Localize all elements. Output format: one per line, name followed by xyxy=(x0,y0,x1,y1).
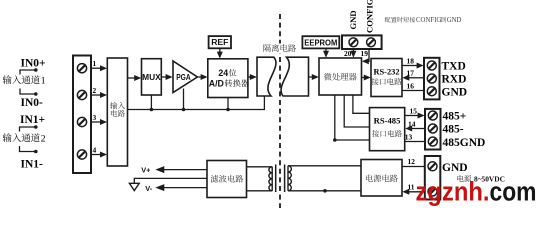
block power circuit xyxy=(361,160,402,197)
svg-text:11: 11 xyxy=(408,182,415,191)
terminal block J4 (pins 15,14,13) xyxy=(425,109,441,150)
terminal screw pin 16 xyxy=(427,87,436,96)
svg-text:13: 13 xyxy=(405,132,413,141)
wire ADC stub to bus xyxy=(227,98,229,110)
wire pin 3 to input circuit xyxy=(91,113,107,125)
svg-text:RS-485: RS-485 xyxy=(374,115,401,125)
svg-text:485GND: 485GND xyxy=(443,137,486,149)
block REF U2 xyxy=(209,36,231,48)
op-amp PGA xyxy=(173,61,197,93)
node IN1+ label xyxy=(20,114,45,126)
ground symbol (analog) xyxy=(129,183,139,190)
svg-text:com: com xyxy=(490,177,537,207)
svg-text:IN0+: IN0+ xyxy=(21,58,46,70)
block EEPROM U4 xyxy=(302,36,339,48)
wire pin13 485GND xyxy=(405,132,425,141)
svg-text:20: 20 xyxy=(344,49,352,58)
block filter circuit xyxy=(207,161,247,198)
svg-text:18: 18 xyxy=(407,56,415,65)
svg-text:4: 4 xyxy=(93,145,97,154)
svg-text:REF: REF xyxy=(211,37,228,47)
terminal screw pin 1 xyxy=(77,64,86,73)
wire ADC to isolator xyxy=(248,74,257,80)
label CONFIG vertical xyxy=(365,0,375,33)
wire isolator to microprocessor xyxy=(309,74,319,80)
pin number 20 xyxy=(344,49,352,58)
svg-text:EEPROM: EEPROM xyxy=(304,37,337,47)
svg-text:IN0-: IN0- xyxy=(21,97,44,109)
terminal screw pin 14 xyxy=(428,124,437,133)
wire pin14 485- xyxy=(405,119,424,131)
transformer secondary coil T1 xyxy=(288,166,291,191)
wire analog ground branch xyxy=(134,178,207,183)
junction dot power return xyxy=(323,189,327,193)
svg-text:RS-232: RS-232 xyxy=(373,67,399,76)
svg-text:1: 1 xyxy=(41,76,46,87)
terminal screw pin 19 xyxy=(367,38,376,47)
wire filter to transformer bottom xyxy=(247,190,273,192)
label 485GND xyxy=(443,137,486,149)
terminal screw pin 11 xyxy=(428,187,437,196)
transformer core line left xyxy=(275,165,277,193)
node input-channel-1 label xyxy=(3,75,46,86)
wire bracket channel1 top xyxy=(20,68,38,74)
wire bracket channel2 bottom xyxy=(20,146,38,153)
svg-text:GND: GND xyxy=(348,10,358,29)
transformer core line right xyxy=(284,165,286,193)
wire V- output xyxy=(145,184,207,193)
junction dot PGA-bus xyxy=(182,108,186,112)
terminal screw pin 18 xyxy=(427,61,436,70)
label GND (RS-232) xyxy=(442,86,468,98)
svg-text:CONFIG: CONFIG xyxy=(365,0,375,33)
svg-text:16: 16 xyxy=(407,81,415,90)
isolator left coupler xyxy=(257,57,276,96)
node IN1- label xyxy=(21,159,44,171)
svg-text:zgznh.: zgznh. xyxy=(416,177,490,207)
junction dot RS-485 line C xyxy=(333,138,337,142)
watermark zgznh xyxy=(416,177,490,207)
svg-text:2: 2 xyxy=(93,86,97,95)
block ADC 24-bit A/D converter U3 xyxy=(208,59,249,98)
note config instruction xyxy=(385,17,462,24)
label GND (power) xyxy=(442,162,468,174)
svg-text:A/D: A/D xyxy=(209,78,224,88)
svg-text:12: 12 xyxy=(408,157,416,166)
watermark com xyxy=(490,177,537,207)
terminal screw pin 20 xyxy=(349,38,358,47)
wire pin15 485+ xyxy=(405,106,425,118)
terminal screw pin 17 xyxy=(427,74,436,83)
svg-text:19: 19 xyxy=(361,49,369,58)
wire PGA to ADC xyxy=(197,74,207,80)
wire MUX stub to bus xyxy=(150,95,152,110)
block RS-485 interface xyxy=(370,108,405,151)
wire MUX to PGA xyxy=(161,74,172,80)
svg-text:14: 14 xyxy=(408,119,416,128)
block input-circuit U1 xyxy=(107,58,127,166)
multiplexer MUX xyxy=(142,59,162,95)
wire input-circuit to MUX xyxy=(128,75,142,81)
svg-text:GND: GND xyxy=(442,86,468,98)
transformer primary coil T1 xyxy=(269,167,272,191)
wire pin11 power input xyxy=(402,182,425,194)
svg-text:V+: V+ xyxy=(141,165,151,174)
wire pin20 GND to micro xyxy=(350,49,356,58)
node IN0+ label xyxy=(21,58,46,70)
wire PGA stub to bus xyxy=(183,89,185,110)
wire analog common bus xyxy=(128,96,265,110)
terminal block J3 (pins 18,17,16) xyxy=(424,58,440,100)
svg-text:RXD: RXD xyxy=(442,74,467,86)
svg-text:24: 24 xyxy=(218,68,228,78)
svg-text:MUX: MUX xyxy=(142,72,161,82)
svg-text:CONFIG: CONFIG xyxy=(416,17,441,24)
svg-text:TXD: TXD xyxy=(442,61,466,73)
terminal screw pin 2 xyxy=(77,90,86,99)
terminal screw pin 3 xyxy=(77,117,86,126)
wire pin 2 to input circuit xyxy=(91,86,107,98)
terminal screw pin 4 xyxy=(77,150,86,159)
svg-text:3: 3 xyxy=(93,113,97,122)
wire pin18 TXD xyxy=(402,56,424,68)
svg-text:IN1+: IN1+ xyxy=(20,114,45,126)
wire filter to transformer top xyxy=(247,166,273,168)
svg-text:485-: 485- xyxy=(443,124,464,136)
svg-text:IN1-: IN1- xyxy=(21,159,44,171)
svg-text:GND: GND xyxy=(447,17,462,24)
label 485- xyxy=(443,124,464,136)
junction dot MUX-bus xyxy=(150,108,154,112)
label RXD xyxy=(442,74,467,86)
wire transformer to power circuit bottom xyxy=(288,190,361,192)
terminal block J2 (pins 20,19) xyxy=(342,35,382,49)
svg-text:1: 1 xyxy=(93,59,97,68)
terminal screw pin 12 xyxy=(428,162,437,171)
wire pin19 CONFIG to micro xyxy=(362,49,369,64)
block RS-232 interface xyxy=(371,59,402,97)
label 485+ xyxy=(443,111,467,123)
svg-text:PGA: PGA xyxy=(176,73,191,82)
isolator right coupler xyxy=(281,57,308,96)
junction dot ADC-bus xyxy=(226,108,230,112)
block microprocessor U5 xyxy=(319,58,362,95)
svg-text:17: 17 xyxy=(407,69,415,78)
node input-channel-2 label xyxy=(3,133,46,144)
wire pin16 GND xyxy=(402,81,424,90)
wire bracket channel2 top xyxy=(20,125,38,131)
node IN0- label xyxy=(21,97,44,109)
wire EEPROM to microprocessor xyxy=(323,48,329,57)
terminal block J1 (pins 1-4) xyxy=(73,56,91,174)
label GND vertical xyxy=(348,10,358,29)
svg-text:2: 2 xyxy=(41,134,46,145)
label power supply range xyxy=(457,175,505,184)
pin number 19 xyxy=(361,49,369,58)
label TXD xyxy=(442,61,466,73)
wire micro to RS-232 xyxy=(362,75,371,81)
wire pin12 GND xyxy=(402,157,425,166)
svg-text:15: 15 xyxy=(410,106,418,115)
svg-text:V-: V- xyxy=(145,184,153,193)
wire micro to RS-485 line C xyxy=(335,95,370,140)
isolation barrier dashed line xyxy=(279,14,281,208)
terminal screw pin 15 xyxy=(428,111,437,120)
wire transformer to power circuit top xyxy=(288,165,361,167)
wire pin 4 to input circuit xyxy=(91,145,107,157)
wire pin17 RXD xyxy=(402,69,424,81)
terminal block J5 (pins 12,11) xyxy=(425,156,441,200)
svg-text:485+: 485+ xyxy=(443,111,467,123)
terminal screw pin 13 xyxy=(428,137,437,146)
wire micro to RS-485 line A xyxy=(353,95,370,113)
wire REF to ADC xyxy=(217,48,223,58)
wire V+ output xyxy=(141,165,207,174)
svg-text:GND: GND xyxy=(442,162,468,174)
wire pin 1 to input circuit xyxy=(91,59,107,71)
wire micro to RS-485 line B xyxy=(344,95,369,127)
wire bracket channel1 bottom xyxy=(20,89,38,96)
label isolation circuit xyxy=(261,44,300,54)
